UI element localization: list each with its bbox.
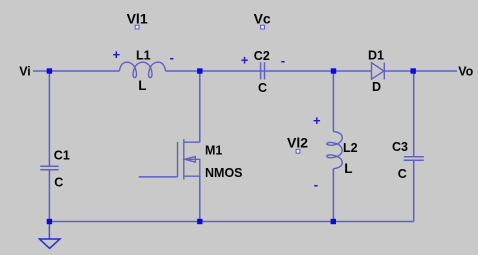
capacitor C1 bbox=[40, 166, 58, 170]
wire right rail lower: bottom rail up to C3 bbox=[413, 160, 415, 221]
diode D1 bbox=[372, 63, 385, 80]
wire left rail lower: C1 to bottom rail bbox=[48, 170, 50, 222]
svg-text:D1: D1 bbox=[368, 48, 384, 62]
wire top rail left: Vi to L1 bbox=[33, 70, 119, 72]
net probe marker Vl2 bbox=[296, 149, 300, 153]
svg-text:-: - bbox=[314, 177, 318, 192]
svg-text:+: + bbox=[241, 53, 249, 68]
wire bottom rail bbox=[49, 221, 413, 223]
node D (D1 / C3 / Vo) bbox=[411, 68, 416, 73]
svg-text:Vo: Vo bbox=[458, 65, 473, 79]
inductor L1 bbox=[119, 62, 165, 77]
capacitor C2 bbox=[261, 62, 265, 79]
node G (L2 / bottom rail) bbox=[331, 219, 336, 224]
svg-text:D: D bbox=[372, 80, 381, 94]
wire top rail right: D1 cathode to Vo bbox=[384, 70, 457, 72]
wire M1 drain lead bbox=[199, 71, 201, 142]
net probe marker Vc bbox=[261, 25, 265, 29]
wire L2 top lead bbox=[332, 71, 334, 132]
svg-text:Vl2: Vl2 bbox=[287, 134, 308, 150]
wire M1 source lead bbox=[199, 176, 201, 221]
node A (Vi / C1 / L1) bbox=[47, 68, 52, 73]
capacitor C3 bbox=[404, 157, 424, 161]
svg-text:C: C bbox=[54, 175, 63, 189]
node E (bottom left / ground) bbox=[47, 219, 52, 224]
node F (M1 source / bottom rail) bbox=[197, 219, 202, 224]
svg-text:L2: L2 bbox=[343, 141, 358, 155]
net probe marker Vl1 bbox=[135, 25, 139, 29]
svg-text:C2: C2 bbox=[254, 49, 270, 63]
node B (L1 / C2 / M1 drain) bbox=[197, 68, 202, 73]
transistor M1 (NMOS) bbox=[178, 139, 200, 179]
wire left rail upper: node A down to C1 bbox=[48, 71, 50, 166]
svg-text:L: L bbox=[344, 161, 352, 176]
node C (C2 / D1 / L2) bbox=[331, 68, 336, 73]
wire right rail upper: C3 up to node D bbox=[413, 71, 415, 156]
svg-text:C3: C3 bbox=[392, 140, 408, 154]
svg-text:Vl1: Vl1 bbox=[127, 11, 148, 27]
svg-text:Vc: Vc bbox=[254, 11, 271, 27]
svg-text:+: + bbox=[313, 113, 321, 128]
wire M1 gate lead bbox=[139, 176, 178, 178]
ground bbox=[40, 239, 60, 248]
wire top rail mid: L1 to D1 anode (through C2 plates) bbox=[166, 70, 372, 72]
svg-text:C: C bbox=[258, 81, 267, 95]
svg-text:L1: L1 bbox=[136, 48, 151, 62]
svg-text:C: C bbox=[398, 167, 407, 181]
svg-text:-: - bbox=[281, 53, 285, 68]
svg-text:NMOS: NMOS bbox=[205, 166, 243, 180]
svg-text:+: + bbox=[113, 47, 121, 62]
wire L2 bottom lead bbox=[332, 169, 334, 222]
svg-text:L: L bbox=[138, 78, 146, 93]
wire ground stub bbox=[48, 222, 50, 240]
inductor L2 bbox=[327, 132, 342, 169]
svg-text:Vi: Vi bbox=[19, 65, 31, 79]
svg-text:M1: M1 bbox=[205, 143, 222, 157]
svg-text:C1: C1 bbox=[54, 149, 70, 163]
svg-text:-: - bbox=[170, 50, 174, 65]
